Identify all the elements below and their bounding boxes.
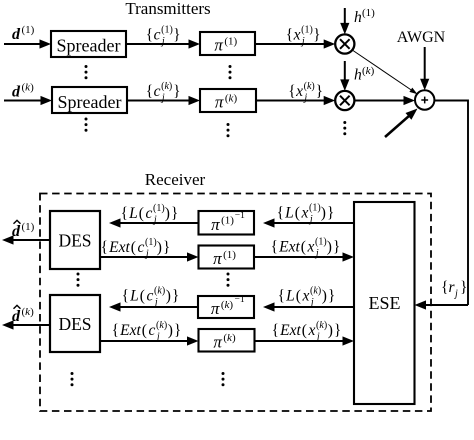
svg-text:π: π bbox=[214, 36, 223, 55]
svg-text:(k): (k) bbox=[310, 286, 321, 297]
svg-text:(: ( bbox=[295, 205, 300, 222]
svg-text:{: { bbox=[288, 83, 295, 100]
svg-text:L: L bbox=[284, 205, 294, 222]
svg-text:(k): (k) bbox=[156, 320, 167, 331]
svg-text:{: { bbox=[271, 239, 278, 256]
svg-text:π: π bbox=[211, 215, 220, 234]
svg-text:}: } bbox=[313, 27, 320, 44]
svg-text:(: ( bbox=[296, 288, 301, 305]
svg-text:}: } bbox=[334, 322, 341, 339]
svg-text:}: } bbox=[172, 288, 179, 305]
svg-text:}: } bbox=[173, 27, 180, 44]
svg-text:(1): (1) bbox=[22, 221, 35, 233]
svg-text:d: d bbox=[12, 308, 21, 325]
svg-text:Receiver: Receiver bbox=[145, 170, 206, 189]
svg-text:}: } bbox=[173, 83, 180, 100]
svg-text:c: c bbox=[138, 239, 145, 256]
svg-text:x: x bbox=[302, 288, 310, 305]
svg-text:DES: DES bbox=[58, 231, 91, 251]
svg-text:): ) bbox=[157, 239, 162, 256]
svg-text:d: d bbox=[12, 26, 21, 43]
svg-text:(1): (1) bbox=[161, 25, 173, 36]
svg-text:DES: DES bbox=[58, 314, 91, 334]
svg-text:L: L bbox=[128, 205, 138, 222]
svg-text:}: } bbox=[328, 288, 335, 305]
svg-text:c: c bbox=[149, 322, 156, 339]
svg-text:{: { bbox=[272, 322, 279, 339]
svg-text:): ) bbox=[168, 322, 173, 339]
svg-text:(k): (k) bbox=[223, 332, 236, 344]
svg-text:−1: −1 bbox=[234, 295, 244, 305]
svg-text:{: { bbox=[101, 239, 108, 256]
svg-text:ESE: ESE bbox=[368, 293, 400, 313]
svg-text:(k): (k) bbox=[22, 82, 35, 94]
svg-text:}: } bbox=[460, 279, 467, 296]
svg-text:d: d bbox=[12, 84, 21, 101]
svg-text:c: c bbox=[147, 288, 154, 305]
svg-text:(1): (1) bbox=[315, 237, 327, 248]
svg-text:{: { bbox=[121, 205, 128, 222]
svg-text:h: h bbox=[354, 67, 362, 84]
svg-text:): ) bbox=[166, 288, 171, 305]
svg-text:Ext: Ext bbox=[279, 322, 301, 339]
svg-text:(k): (k) bbox=[22, 306, 35, 318]
svg-text:(: ( bbox=[131, 239, 136, 256]
svg-text:L: L bbox=[129, 288, 139, 305]
svg-text:(1): (1) bbox=[223, 249, 236, 261]
svg-text:(: ( bbox=[139, 205, 144, 222]
svg-text:(k): (k) bbox=[316, 320, 327, 331]
svg-text:AWGN: AWGN bbox=[397, 29, 446, 46]
svg-text:(1): (1) bbox=[301, 25, 313, 36]
svg-text:{: { bbox=[122, 288, 129, 305]
svg-text:x: x bbox=[301, 205, 309, 222]
svg-text:c: c bbox=[146, 205, 153, 222]
svg-text:): ) bbox=[327, 239, 332, 256]
svg-text:): ) bbox=[321, 205, 326, 222]
svg-text:(: ( bbox=[301, 239, 306, 256]
svg-text:Spreader: Spreader bbox=[57, 36, 121, 56]
svg-text:}: } bbox=[171, 205, 178, 222]
svg-text:}: } bbox=[163, 239, 170, 256]
svg-text:{: { bbox=[278, 288, 285, 305]
svg-text:(k): (k) bbox=[154, 286, 165, 297]
svg-text:Transmitters: Transmitters bbox=[125, 0, 210, 18]
svg-text:c: c bbox=[154, 27, 161, 44]
svg-text:(k): (k) bbox=[362, 65, 375, 77]
svg-text:π: π bbox=[213, 332, 222, 351]
svg-text:(1): (1) bbox=[153, 203, 165, 214]
svg-text:{: { bbox=[286, 27, 293, 44]
svg-text:π: π bbox=[211, 299, 220, 318]
svg-text:(1): (1) bbox=[309, 203, 321, 214]
svg-text:{: { bbox=[441, 279, 448, 296]
svg-text:(1): (1) bbox=[145, 237, 157, 248]
svg-text:(: ( bbox=[142, 322, 147, 339]
svg-text:x: x bbox=[295, 83, 303, 100]
svg-text:(1): (1) bbox=[221, 215, 234, 227]
svg-text:): ) bbox=[328, 322, 333, 339]
svg-text:L: L bbox=[285, 288, 295, 305]
svg-text:): ) bbox=[165, 205, 170, 222]
svg-text:x: x bbox=[293, 27, 301, 44]
svg-text:Ext: Ext bbox=[278, 239, 300, 256]
svg-text:−1: −1 bbox=[235, 211, 245, 221]
svg-text:(k): (k) bbox=[304, 81, 315, 92]
svg-text:{: { bbox=[277, 205, 284, 222]
svg-text:Ext: Ext bbox=[119, 322, 141, 339]
svg-text:π: π bbox=[213, 249, 222, 268]
svg-text:{: { bbox=[146, 27, 153, 44]
svg-text:d: d bbox=[12, 223, 21, 240]
svg-text:(1): (1) bbox=[362, 7, 375, 19]
svg-text:(1): (1) bbox=[224, 35, 237, 47]
svg-text:}: } bbox=[174, 322, 181, 339]
svg-text:(: ( bbox=[302, 322, 307, 339]
svg-text:(k): (k) bbox=[225, 92, 238, 104]
svg-text:x: x bbox=[308, 322, 316, 339]
svg-text:(k): (k) bbox=[161, 81, 172, 92]
svg-text:x: x bbox=[307, 239, 315, 256]
svg-text:π: π bbox=[215, 93, 224, 112]
svg-text:}: } bbox=[316, 83, 323, 100]
svg-text:Ext: Ext bbox=[108, 239, 130, 256]
svg-text:(1): (1) bbox=[22, 24, 35, 36]
svg-text:): ) bbox=[322, 288, 327, 305]
svg-text:}: } bbox=[333, 239, 340, 256]
svg-text:}: } bbox=[327, 205, 334, 222]
svg-text:(: ( bbox=[140, 288, 145, 305]
svg-text:h: h bbox=[354, 9, 362, 26]
svg-text:(k): (k) bbox=[221, 299, 234, 311]
svg-text:Spreader: Spreader bbox=[58, 92, 122, 112]
svg-text:{: { bbox=[146, 83, 153, 100]
svg-text:c: c bbox=[154, 83, 161, 100]
svg-text:{: { bbox=[112, 322, 119, 339]
